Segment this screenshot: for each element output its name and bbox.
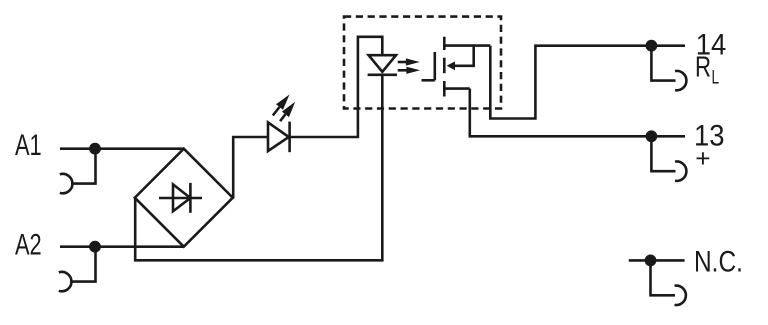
MOSFET Q1 source lead: [444, 87, 470, 90]
wire A1 to bridge: [60, 147, 184, 150]
clamp terminal N.C.: [651, 260, 686, 305]
wire source to terminal 13: [470, 89, 685, 137]
clamp terminal A1: [60, 149, 96, 194]
MOSFET Q1 channel segments: [443, 37, 446, 97]
node 14 junction: [646, 40, 658, 52]
svg-text:A2: A2: [15, 229, 42, 261]
wire drain to terminal 14: [490, 46, 685, 119]
optocoupler U1 dashed enclosure: [344, 17, 501, 109]
node N.C. junction: [645, 255, 657, 267]
svg-text:L: L: [712, 66, 720, 88]
node 13 junction: [646, 130, 658, 142]
wire D1 cathode to opto LED anode: [290, 37, 383, 137]
LED D1 indicator: [268, 122, 290, 153]
diode inside bridge: [159, 183, 202, 213]
node A1 junction: [89, 143, 101, 155]
wire bridge minus rail to opto LED cathode: [135, 75, 382, 260]
wire N.C. stub: [629, 259, 685, 262]
svg-text:N.C.: N.C.: [694, 244, 743, 278]
label RL: [695, 52, 719, 88]
node A2 junction: [89, 241, 101, 253]
clamp terminal 13: [651, 136, 686, 181]
label plus: [695, 145, 710, 172]
svg-text:R: R: [695, 52, 711, 83]
svg-text:+: +: [695, 145, 710, 172]
label 13: [694, 120, 725, 153]
light emission arrows of D1: [273, 95, 295, 122]
label N.C.: [694, 244, 743, 278]
MOSFET Q1 gate: [422, 52, 435, 80]
wire A2 to bridge: [60, 245, 184, 248]
optical coupling arrows: [398, 58, 421, 74]
MOSFET Q1 drain lead: [444, 44, 490, 47]
MOSFET Q1 body arrow: [447, 46, 474, 71]
svg-text:A1: A1: [15, 130, 42, 162]
bridge rectifier B1 diamond: [135, 149, 233, 247]
label A2: [15, 229, 42, 261]
opto LED: [368, 55, 397, 75]
label A1: [15, 130, 42, 162]
label 14: [696, 29, 727, 62]
clamp terminal A2: [59, 247, 96, 292]
wire bridge plus to indicator LED: [233, 137, 268, 198]
clamp terminal 14: [651, 46, 686, 91]
